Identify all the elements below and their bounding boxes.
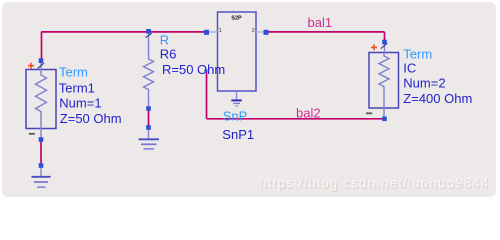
ground below SnP1 <box>236 91 238 100</box>
svg-text:Term1: Term1 <box>59 80 95 95</box>
term Term1 plus <box>28 63 34 69</box>
ground below Term1 <box>40 168 42 177</box>
term IC top pin stub <box>384 42 386 53</box>
svg-text:Term: Term <box>403 47 432 62</box>
wire: R6 bottom to ground <box>148 109 150 127</box>
wire: left vertical from corner down to Term1 + pin <box>41 32 43 61</box>
svg-text:Term: Term <box>59 65 88 80</box>
svg-text:R=50 Ohm: R=50 Ohm <box>162 62 225 77</box>
svg-text:Z=50 Ohm: Z=50 Ohm <box>60 111 122 126</box>
wire: middle vertical from pin1 node down to bal2 <box>206 71 208 119</box>
node: junction IC bottom (bal2 end) <box>382 117 387 122</box>
term IC resistor zigzag <box>379 53 389 109</box>
node: junction Term1 bottom <box>39 137 44 142</box>
svg-text:bal1: bal1 <box>308 15 333 30</box>
term Term1 top pin stub <box>40 61 42 70</box>
wire: Term1 bottom to ground <box>40 140 42 166</box>
svg-text:https://blog.csdn.net/luohuo98: https://blog.csdn.net/luohuo9844 <box>259 175 489 190</box>
node: junction Term1 ground <box>39 163 44 168</box>
ground below R6 <box>148 130 150 139</box>
s-parameter block pin 2 stub <box>256 31 266 33</box>
svg-text:R6: R6 <box>160 46 177 61</box>
svg-text:SnP: SnP <box>223 108 248 123</box>
term Term1 box <box>26 70 56 129</box>
term IC minus <box>366 112 372 114</box>
node: wire vertex on middle vertical <box>204 69 207 72</box>
node: junction at S2P pin 1 <box>204 30 209 35</box>
svg-text:Num=2: Num=2 <box>403 76 445 91</box>
svg-text:1: 1 <box>219 28 222 34</box>
term IC plus <box>371 44 377 50</box>
svg-text:SnP1: SnP1 <box>222 127 254 142</box>
svg-text:bal2: bal2 <box>296 105 321 120</box>
s-parameter block SnP1 box <box>218 12 257 91</box>
term IC bottom pin stub <box>383 108 385 119</box>
resistor R6 <box>144 33 154 107</box>
term Term1 resistor zigzag <box>36 70 47 129</box>
term Term1 bottom pin stub <box>40 129 42 140</box>
svg-text:IC: IC <box>403 61 416 76</box>
term Term1 minus <box>29 133 35 135</box>
term Term1 pin slash <box>38 63 44 68</box>
svg-text:R: R <box>160 32 169 47</box>
node: junction R6 top <box>146 29 151 34</box>
node: junction R6 ground <box>146 125 151 130</box>
wire: bal1 horizontal from S2P pin 2 <box>266 32 385 42</box>
node: junction IC top <box>382 40 387 45</box>
term IC pin slash <box>381 43 387 48</box>
wire: bal2 horizontal <box>207 118 385 120</box>
node: junction R6 bottom <box>146 106 151 111</box>
node: junction Term1 top <box>39 58 44 63</box>
svg-text:2: 2 <box>252 28 255 34</box>
svg-text:S2P: S2P <box>231 15 242 21</box>
resistor R6 pin slash <box>145 33 151 37</box>
s-parameter block pin 1 stub <box>207 31 218 33</box>
term IC box <box>369 53 399 109</box>
svg-text:Z=400 Ohm: Z=400 Ohm <box>403 91 472 106</box>
wire: top horizontal net from Term1 to S2P pin 1 <box>42 31 207 33</box>
node: junction at S2P pin 2 <box>264 30 269 35</box>
svg-text:Num=1: Num=1 <box>59 96 101 111</box>
